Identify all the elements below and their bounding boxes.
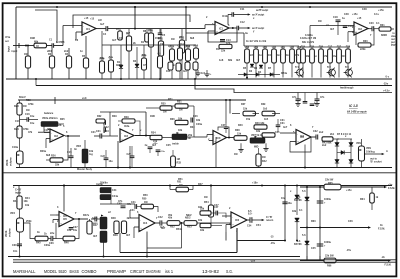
svg-text:2k1: 2k1	[330, 133, 335, 136]
wire s3 bottom rail	[8, 256, 300, 258]
pot VR2b volume	[6, 138, 23, 168]
resistor R41 18k	[262, 131, 280, 137]
svg-text:R19: R19	[254, 46, 259, 49]
svg-text:Tr2: Tr2	[327, 66, 331, 69]
svg-text:C14: C14	[272, 46, 277, 49]
svg-text:R25: R25	[310, 46, 315, 49]
resistor R35 1M	[146, 103, 172, 114]
svg-text:C17: C17	[328, 46, 333, 49]
wire IC2 in	[310, 26, 354, 48]
op-amp IC3c	[213, 131, 227, 145]
svg-text:4n7: 4n7	[283, 126, 288, 129]
svg-text:R40 18k: R40 18k	[255, 122, 265, 125]
svg-text:-: -	[355, 25, 356, 28]
wire feedthrough label	[340, 87, 354, 90]
resistor R47v	[87, 219, 98, 234]
resistor R65 22k	[324, 179, 341, 190]
svg-text:VR9: VR9	[356, 142, 361, 145]
svg-text:10n: 10n	[166, 70, 171, 73]
svg-text:0.1: 0.1	[299, 209, 303, 212]
svg-text:MID: MID	[254, 146, 259, 149]
svg-text:R47: R47	[198, 183, 203, 186]
svg-text:-15v: -15v	[383, 82, 389, 86]
svg-text:BZY88: BZY88	[294, 199, 302, 202]
svg-text:R65: R65	[328, 182, 333, 185]
resistor R24	[14, 115, 29, 138]
capacitor C40	[117, 203, 132, 208]
svg-text:BZY88: BZY88	[294, 243, 302, 246]
svg-text:F.S.M.: F.S.M.	[378, 228, 385, 231]
svg-text:1k5: 1k5	[263, 108, 268, 111]
svg-text:220k: 220k	[360, 48, 366, 51]
svg-text:F.S.M.: F.S.M.	[385, 264, 392, 267]
svg-text:15k: 15k	[243, 108, 248, 111]
svg-text:C26a: C26a	[196, 123, 203, 126]
wire psu v ext	[307, 256, 320, 261]
svg-text:0 v: 0 v	[386, 75, 390, 79]
resistor R37 15k	[232, 103, 256, 116]
wire vr2a out	[44, 124, 64, 133]
ground gnd s1a	[195, 70, 205, 76]
svg-text:R42: R42	[262, 160, 267, 163]
svg-text:C27: C27	[221, 124, 226, 127]
op-amp IC4	[139, 215, 155, 232]
wire rail drop	[134, 6, 136, 29]
svg-text:+15: +15	[357, 17, 362, 20]
svg-text:10n: 10n	[13, 250, 18, 253]
svg-text:-: -	[51, 132, 52, 135]
svg-text:18k: 18k	[200, 229, 205, 232]
wire s3 value labels	[10, 178, 365, 253]
wire ic2a out	[65, 135, 80, 137]
svg-text:68k: 68k	[305, 55, 310, 58]
svg-text:2k2: 2k2	[186, 45, 191, 48]
svg-text:R53: R53	[187, 226, 192, 229]
svg-text:LM: LM	[98, 19, 102, 22]
svg-text:R29: R29	[112, 115, 117, 118]
svg-text:R46: R46	[64, 242, 69, 245]
svg-text:C46: C46	[348, 220, 353, 223]
svg-text:C12: C12	[240, 21, 245, 24]
svg-text:22k 5W: 22k 5W	[325, 255, 334, 258]
svg-text:IC2: IC2	[54, 135, 59, 138]
svg-text:C48: C48	[344, 13, 349, 16]
svg-text:IC1b: IC1b	[222, 15, 228, 18]
svg-text:Input: Input	[8, 46, 11, 52]
svg-text:-Ve: -Ve	[381, 256, 385, 259]
resistor R18	[245, 46, 250, 78]
wire vert 146	[145, 112, 147, 136]
resistor R13	[179, 29, 184, 79]
svg-text:-: -	[60, 216, 61, 219]
resistor R48	[111, 217, 119, 234]
wire ic6 fb heavy	[226, 228, 285, 241]
svg-text:C22: C22	[104, 126, 109, 129]
resistor R26	[319, 46, 324, 78]
svg-text:8.5: 8.5	[248, 210, 252, 213]
svg-text:47k: 47k	[323, 55, 328, 58]
svg-text:IC1: IC1	[86, 28, 91, 31]
svg-text:C23: C23	[104, 130, 109, 133]
wire stage1 enclosure	[73, 15, 190, 28]
svg-text:250k: 250k	[26, 220, 32, 223]
diode D12	[349, 160, 353, 164]
svg-text:iss 1: iss 1	[165, 269, 174, 274]
wire out to B arrow	[365, 150, 389, 164]
svg-text:+4.5v: +4.5v	[383, 89, 390, 93]
svg-text:4k7: 4k7	[330, 28, 335, 31]
resistor R12	[142, 45, 147, 79]
svg-text:bass: bass	[92, 217, 98, 220]
svg-text:treble: treble	[96, 183, 103, 186]
wire fb drop	[147, 223, 182, 248]
wire s1 value labels	[5, 8, 387, 75]
wire q labels	[295, 66, 349, 69]
svg-text:input: input	[15, 191, 21, 194]
svg-text:R31: R31	[177, 101, 182, 104]
svg-text:IC5: IC5	[63, 218, 68, 221]
wire B send arrow	[239, 27, 265, 30]
svg-text:IC5: IC5	[63, 215, 68, 218]
svg-text:return: return	[266, 219, 274, 222]
capacitor C36	[48, 223, 56, 245]
svg-text:C32: C32	[313, 130, 318, 133]
pot mid 5k	[250, 134, 265, 149]
resistor R43	[322, 137, 339, 145]
capacitor C29b	[156, 150, 166, 156]
wire bank1 small row	[168, 62, 198, 71]
svg-text:C3a: C3a	[100, 57, 105, 60]
wire A send arrow	[234, 13, 265, 16]
diode D7	[259, 73, 280, 77]
svg-text:390R: 390R	[116, 64, 122, 67]
wire bank1 link	[102, 31, 196, 45]
svg-text:R44: R44	[25, 197, 30, 200]
svg-text:Tr3: Tr3	[345, 66, 349, 69]
svg-text:R39: R39	[261, 103, 266, 106]
resistor R11	[158, 29, 163, 79]
svg-text:15k: 15k	[148, 29, 153, 32]
wire s2 bottom drops	[130, 137, 305, 168]
svg-text:R48: R48	[113, 234, 118, 237]
svg-text:R32: R32	[97, 115, 102, 118]
capacitor C28b	[145, 143, 159, 153]
wire s2 rail2	[100, 111, 146, 113]
svg-text:R26: R26	[319, 46, 324, 49]
capacitor C27b	[127, 146, 135, 168]
svg-text:C41: C41	[130, 209, 135, 212]
resistor C6	[109, 45, 114, 79]
svg-text:18k: 18k	[178, 129, 183, 132]
svg-text:10k: 10k	[25, 204, 30, 207]
svg-text:2n2: 2n2	[64, 50, 69, 53]
ground gnd3	[238, 143, 243, 152]
svg-text:R26a: R26a	[40, 150, 47, 153]
svg-text:10u: 10u	[67, 229, 72, 232]
svg-text:R37: R37	[241, 103, 246, 106]
svg-text:C18a: C18a	[12, 146, 19, 149]
svg-text:4k7: 4k7	[152, 144, 157, 147]
svg-text:10u: 10u	[281, 197, 286, 200]
svg-text:VR7 5k lin: VR7 5k lin	[251, 134, 263, 137]
wire to B return	[252, 216, 274, 222]
wire ic4 down	[146, 232, 148, 257]
svg-text:C25: C25	[166, 144, 171, 147]
svg-text:1M: 1M	[163, 111, 166, 114]
resistor R54	[204, 185, 214, 218]
svg-text:18k: 18k	[292, 210, 297, 213]
svg-text:C18: C18	[333, 16, 338, 19]
svg-text:log: log	[89, 153, 93, 156]
svg-text:10u: 10u	[109, 160, 114, 163]
svg-text:NE/2: NE/2	[186, 214, 192, 217]
svg-text:R53a: R53a	[176, 228, 183, 231]
svg-text:BASS: BASS	[70, 269, 80, 274]
wire ic5a out	[74, 218, 88, 220]
ground gnd1	[295, 104, 300, 107]
svg-text:47n: 47n	[118, 200, 123, 203]
capacitor C20	[368, 22, 380, 31]
svg-text:1k5: 1k5	[264, 118, 269, 121]
svg-text:C21: C21	[96, 130, 101, 133]
svg-text:R31: R31	[168, 98, 173, 101]
svg-text:4u7: 4u7	[160, 226, 165, 229]
svg-text:R23a: R23a	[281, 72, 288, 75]
svg-text:V/1a: V/1a	[5, 36, 11, 39]
svg-text:4n7: 4n7	[277, 54, 282, 57]
capacitor C39	[91, 217, 100, 222]
resistor R30 220k	[356, 29, 374, 51]
wire s2 mid links	[162, 106, 213, 141]
pot bright2	[100, 189, 117, 200]
svg-text:4n7: 4n7	[183, 70, 188, 73]
svg-text:C36a: C36a	[44, 244, 51, 247]
pot tone2	[92, 222, 107, 257]
svg-text:10k: 10k	[24, 200, 29, 203]
svg-text:R54: R54	[204, 201, 209, 204]
pot tone1	[100, 214, 107, 229]
svg-text:1M: 1M	[24, 53, 27, 56]
resistor R16	[194, 45, 199, 80]
svg-text:1n8: 1n8	[219, 59, 224, 62]
capacitor C11	[228, 12, 234, 25]
svg-text:R47a: R47a	[83, 214, 90, 217]
svg-text:R25: R25	[60, 118, 65, 121]
svg-text:+15v: +15v	[352, 13, 358, 16]
svg-text:47n: 47n	[292, 96, 297, 99]
wire -15V rail	[36, 79, 392, 86]
capacitor C29	[310, 101, 316, 106]
svg-text:1n: 1n	[259, 54, 262, 57]
svg-text:10u: 10u	[30, 115, 35, 118]
pot treble	[172, 132, 193, 140]
wire +15 top label	[378, 8, 384, 12]
wire ic3b in	[280, 133, 311, 152]
svg-text:C17: C17	[44, 129, 49, 132]
wire s2 divider	[3, 172, 396, 174]
svg-text:IC3: IC3	[300, 135, 305, 138]
svg-text:10u: 10u	[73, 229, 78, 232]
svg-text:2u2: 2u2	[322, 144, 327, 147]
svg-text:18k: 18k	[196, 119, 201, 122]
wire slave label	[391, 32, 398, 47]
svg-text:IC3: IC3	[124, 135, 129, 138]
svg-text:1M: 1M	[204, 196, 207, 199]
svg-text:10u: 10u	[30, 122, 35, 125]
resistor R56	[200, 223, 211, 232]
svg-text:-15v: -15v	[161, 151, 166, 153]
resistor R53	[180, 217, 232, 229]
wire ic2a wires	[38, 132, 50, 148]
svg-text:C27: C27	[127, 153, 132, 156]
resistor R2 68k	[34, 41, 47, 49]
svg-text:R29: R29	[124, 116, 129, 119]
svg-text:1M: 1M	[26, 109, 29, 112]
resistor R19	[254, 46, 259, 78]
svg-text:R45: R45	[36, 242, 41, 245]
svg-text:+15: +15	[84, 17, 89, 20]
svg-text:R23: R23	[14, 105, 19, 108]
svg-text:1M: 1M	[171, 38, 174, 41]
resistor R44	[13, 196, 28, 209]
svg-text:treble: treble	[172, 143, 179, 146]
svg-text:C38: C38	[12, 244, 17, 247]
svg-text:-: -	[214, 134, 215, 137]
svg-text:volume: volume	[10, 157, 13, 166]
svg-text:68k: 68k	[34, 41, 39, 44]
capacitor C21 47n	[292, 93, 301, 104]
pot VR4 vol	[5, 209, 24, 248]
svg-text:C11: C11	[240, 8, 245, 11]
capacitor C22c	[101, 150, 114, 168]
capacitor C1	[49, 39, 65, 48]
wire ic6 in net	[211, 213, 226, 226]
resistor R38 15k	[234, 129, 247, 140]
diode D10	[337, 151, 351, 155]
op-amp IC1a	[82, 18, 96, 36]
capacitor C16	[20, 113, 39, 122]
wire right drop 285	[284, 185, 286, 241]
capacitor C44 1000u	[317, 198, 332, 205]
zener DZ1	[294, 196, 309, 202]
resistor C17	[328, 46, 333, 78]
svg-text:1n: 1n	[80, 50, 83, 53]
svg-text:45k: 45k	[168, 214, 173, 217]
wire link s2	[102, 112, 118, 136]
capacitor C12	[237, 26, 239, 31]
resistor R25	[310, 46, 315, 78]
svg-text:0.022u: 0.022u	[305, 34, 313, 37]
resistor R55	[200, 208, 211, 216]
svg-text:R24: R24	[14, 128, 19, 131]
svg-text:C15: C15	[290, 46, 295, 49]
pot bright1	[100, 182, 111, 193]
capacitor C43	[282, 202, 292, 205]
wire wiper link	[24, 223, 35, 239]
svg-text:0.47/63: 0.47/63	[56, 41, 65, 44]
svg-text:R60: R60	[311, 220, 316, 223]
svg-text:C41: C41	[131, 201, 136, 204]
transistor Q2	[327, 68, 336, 78]
svg-text:1M: 1M	[23, 105, 26, 108]
diode D5	[238, 73, 247, 77]
capacitor C27	[221, 123, 228, 133]
svg-text:C42: C42	[158, 216, 163, 219]
wire bank2 labels	[246, 40, 267, 43]
resistor R15	[186, 45, 191, 79]
svg-text:22u: 22u	[332, 55, 337, 58]
svg-text:C31: C31	[280, 122, 285, 125]
svg-text:C44a: C44a	[112, 195, 119, 198]
wire ic4 out	[155, 222, 160, 224]
svg-text:R66: R66	[327, 265, 332, 268]
resistor R31 out	[374, 24, 394, 31]
wire -18 label	[250, 260, 256, 263]
svg-text:60mV: 60mV	[19, 96, 26, 99]
svg-text:+18v: +18v	[252, 182, 258, 185]
svg-text:33k: 33k	[55, 164, 60, 167]
svg-text:5.6: 5.6	[302, 234, 306, 237]
svg-text:-: -	[232, 216, 233, 219]
svg-text:4n7: 4n7	[126, 32, 131, 35]
svg-text:R48: R48	[111, 217, 116, 220]
svg-text:IC3: IC3	[217, 137, 222, 140]
resistor R20	[263, 46, 268, 78]
resistor R64 psu	[370, 187, 379, 210]
diode D13	[295, 185, 300, 216]
capacitor C15b	[67, 148, 74, 168]
svg-text:R31: R31	[380, 24, 385, 27]
svg-text:bass: bass	[92, 222, 98, 225]
resistor C7	[178, 45, 183, 80]
svg-text:22u: 22u	[50, 232, 55, 235]
resistor R17 22k	[219, 44, 232, 52]
svg-text:volume: volume	[9, 228, 12, 237]
svg-text:10k: 10k	[268, 54, 273, 57]
pot VR2a gain	[41, 117, 58, 133]
svg-text:R51: R51	[178, 178, 183, 181]
resistor C9	[158, 45, 163, 79]
resistor R52	[167, 217, 180, 229]
resistor R7	[116, 28, 122, 40]
capacitor C4	[96, 26, 108, 36]
svg-text:-15v: -15v	[346, 249, 352, 252]
svg-text:1M: 1M	[234, 153, 237, 156]
resistor R23	[14, 100, 26, 115]
svg-text:47k: 47k	[28, 131, 33, 134]
ground gnd s1b	[204, 70, 212, 77]
svg-text:R50: R50	[143, 194, 148, 197]
wire psu -ve rail	[300, 256, 392, 267]
svg-text:1M: 1M	[179, 109, 182, 112]
capacitor C54	[247, 213, 252, 228]
diode D1	[117, 45, 123, 79]
capacitor C21b	[94, 130, 106, 139]
svg-text:18k: 18k	[256, 130, 261, 133]
wire title divider	[13, 260, 396, 262]
ground gnd2	[314, 104, 319, 107]
wire heavy left	[120, 233, 237, 253]
svg-text:-: -	[83, 25, 84, 28]
wire IC1b out	[229, 27, 237, 29]
svg-text:DIAGRAM: DIAGRAM	[146, 269, 161, 274]
wire s2 top rail	[18, 96, 246, 104]
op-amp IC5a	[59, 212, 74, 227]
svg-text:MARSHALL: MARSHALL	[13, 269, 36, 274]
resistor R34	[150, 132, 162, 144]
svg-text:-: -	[121, 132, 122, 135]
wire preamp link	[35, 10, 57, 43]
